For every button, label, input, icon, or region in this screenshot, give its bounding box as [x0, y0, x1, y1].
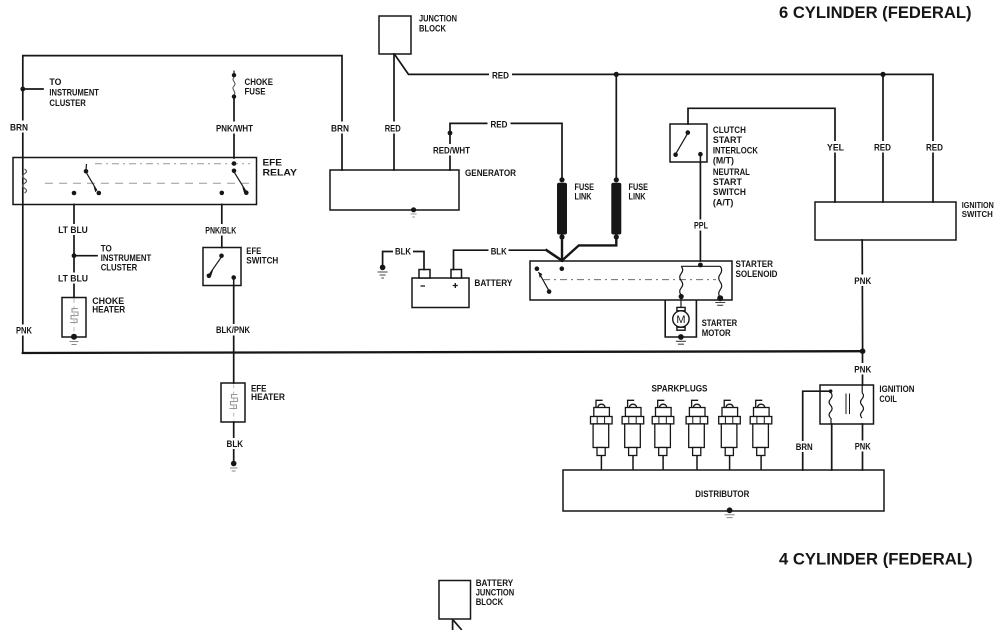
- EFE relay dash line middle: [45, 182, 252, 184]
- svg-text:M: M: [676, 314, 685, 326]
- wire: battery right BLK to solenoid apex: [454, 250, 547, 269]
- battery main box: [412, 278, 469, 308]
- starter solenoid box: [530, 261, 732, 300]
- wire label RED: [488, 119, 511, 130]
- ground: choke heater ground: [70, 342, 79, 345]
- wire label BLK/PNK: [215, 324, 252, 336]
- svg-text:BRN: BRN: [796, 442, 813, 452]
- svg-text:(A/T): (A/T): [713, 197, 734, 207]
- starter solenoid internals: [535, 263, 726, 306]
- svg-text:START: START: [713, 177, 742, 187]
- wire: YEL line clutch interlock to ignition switch: [688, 108, 835, 202]
- svg-text:RED: RED: [492, 71, 509, 81]
- wire label PNK: [853, 275, 873, 287]
- distributor bottom terminal: [725, 507, 735, 517]
- wire: PNK bus to ignition coil: [862, 351, 864, 385]
- node: LT BLU junction dot: [72, 253, 77, 258]
- svg-text:JUNCTION: JUNCTION: [419, 14, 457, 24]
- wire: PNK/BLK relay to EFE switch: [221, 205, 223, 248]
- svg-text:SWITCH: SWITCH: [713, 187, 746, 197]
- wire: RED drop to ignition switch: [882, 74, 884, 202]
- wire label RED: [872, 141, 893, 153]
- svg-text:BRN: BRN: [331, 124, 349, 134]
- EFE switch internals: [207, 254, 236, 286]
- wire label PPL: [692, 220, 710, 231]
- battery junction block pigtails: [453, 619, 462, 630]
- svg-text:IGNITION: IGNITION: [879, 384, 914, 394]
- wire label BRN: [9, 121, 30, 133]
- wire label RED: [383, 122, 403, 134]
- ground: solenoid coil ground: [715, 303, 725, 306]
- svg-text:SWITCH: SWITCH: [246, 256, 278, 266]
- wire label LT BLU: [57, 273, 90, 284]
- EFE switch box: [203, 248, 241, 286]
- wire: BRN coil feed from distributor: [803, 391, 831, 470]
- svg-text:TO: TO: [49, 77, 61, 87]
- RED/WHT node dot: [448, 131, 453, 136]
- wire: PNK ignition switch down to bus: [861, 240, 863, 351]
- EFE relay dash-dot line upper: [95, 163, 250, 165]
- svg-text:PNK: PNK: [854, 365, 871, 375]
- sparkplug 4: [686, 400, 708, 470]
- fuse link 2: [611, 177, 621, 239]
- wire: BLK/PNK EFE switch to EFE heater: [233, 286, 235, 384]
- ignition switch box: [815, 202, 956, 240]
- svg-text:RED: RED: [926, 143, 943, 153]
- choke heater box: [62, 298, 86, 338]
- wire label RED: [924, 141, 945, 153]
- svg-text:YEL: YEL: [827, 143, 844, 153]
- svg-text:SPARKPLUGS: SPARKPLUGS: [652, 384, 708, 394]
- wire label BLK: [225, 438, 246, 449]
- wire label LT BLU: [57, 224, 90, 235]
- svg-text:BLK/PNK: BLK/PNK: [216, 325, 250, 335]
- BLK terminal below EFE heater: [230, 461, 237, 471]
- svg-text:STARTER: STARTER: [736, 259, 774, 269]
- svg-text:PNK/WHT: PNK/WHT: [216, 124, 253, 134]
- svg-text:RELAY: RELAY: [263, 168, 298, 178]
- battery terminal left: [419, 270, 430, 279]
- svg-text:PNK: PNK: [16, 326, 32, 336]
- svg-text:START: START: [713, 135, 742, 145]
- svg-text:BLK: BLK: [491, 247, 507, 257]
- svg-text:LT BLU: LT BLU: [58, 274, 88, 284]
- EFE relay middle switch: [72, 164, 101, 195]
- wire: junction block down to generator RED: [393, 54, 395, 170]
- wire label BLK: [489, 246, 509, 257]
- ignition coil internals: [829, 386, 864, 425]
- wire: RED branch to fuse link 1: [450, 123, 562, 178]
- svg-text:6 CYLINDER (FEDERAL): 6 CYLINDER (FEDERAL): [779, 4, 972, 22]
- svg-text:LINK: LINK: [575, 191, 592, 201]
- generator bottom terminal: [411, 207, 417, 217]
- wire label PNK: [853, 363, 873, 375]
- battery plus minus: [421, 283, 458, 288]
- svg-text:HEATER: HEATER: [92, 304, 125, 314]
- svg-text:FUSE: FUSE: [245, 86, 266, 96]
- wire: battery left BLK to ground: [383, 252, 424, 270]
- wire label BRN: [329, 122, 351, 134]
- svg-text:STARTER: STARTER: [702, 318, 738, 328]
- wire label PNK/WHT: [214, 122, 255, 134]
- svg-text:JUNCTION: JUNCTION: [476, 587, 515, 597]
- svg-text:(M/T): (M/T): [713, 156, 734, 166]
- ignition coil box: [820, 385, 874, 424]
- battery terminal right: [451, 270, 462, 279]
- EFE relay right switch: [220, 161, 249, 195]
- EFE relay box: [13, 158, 257, 205]
- generator box: [330, 170, 459, 210]
- wire: PPL clutch interlock to solenoid: [699, 162, 701, 261]
- wire: long bottom PNK bus: [23, 351, 863, 353]
- svg-text:PPL: PPL: [694, 221, 708, 231]
- svg-text:GENERATOR: GENERATOR: [465, 168, 516, 178]
- wire label BRN: [795, 441, 814, 452]
- sparkplug 3: [652, 400, 674, 470]
- wire label RED: [489, 70, 512, 81]
- clutch start interlock internals: [673, 130, 702, 162]
- wire label PNK/BLK: [204, 224, 239, 236]
- svg-text:CLUSTER: CLUSTER: [101, 263, 138, 273]
- node: instrument cluster junction dot: [20, 87, 25, 92]
- node: RED bus junction dot left: [614, 72, 619, 77]
- svg-text:CLUSTER: CLUSTER: [49, 98, 86, 108]
- junction block box: [379, 16, 411, 54]
- svg-text:RED: RED: [491, 120, 508, 130]
- wire: LT BLU drop from EFE relay: [73, 205, 75, 298]
- svg-text:BLOCK: BLOCK: [419, 23, 446, 33]
- svg-text:LINK: LINK: [629, 191, 646, 201]
- wire: fuse link 2 bent path to apex: [562, 236, 616, 260]
- svg-text:PNK/BLK: PNK/BLK: [205, 226, 236, 236]
- wire label YEL: [825, 141, 846, 153]
- wire label BLK: [393, 246, 413, 257]
- svg-text:MOTOR: MOTOR: [702, 328, 731, 338]
- INTERNALS: [20, 71, 885, 518]
- wire: tick to instrument cluster mid: [74, 255, 97, 257]
- wire: fuse link 1 to apex: [561, 236, 563, 261]
- EFE heater box: [221, 383, 245, 422]
- svg-text:BATTERY: BATTERY: [476, 578, 514, 588]
- svg-text:BATTERY: BATTERY: [474, 278, 512, 288]
- clutch start interlock box: [670, 124, 707, 162]
- SPARKPLUGS: [591, 400, 772, 470]
- svg-text:LT BLU: LT BLU: [58, 225, 88, 235]
- svg-text:DISTRIBUTOR: DISTRIBUTOR: [695, 489, 749, 499]
- sparkplug 6: [750, 400, 772, 470]
- ground: starter motor ground: [676, 341, 686, 344]
- choke fuse: [232, 71, 236, 99]
- sparkplug 2: [622, 400, 644, 470]
- sparkplug 1: [591, 400, 613, 470]
- battery ground: [378, 265, 388, 278]
- fuse link 1: [557, 177, 567, 239]
- svg-text:INSTRUMENT: INSTRUMENT: [101, 253, 152, 263]
- wire label PNK: [853, 441, 872, 452]
- svg-text:INSTRUMENT: INSTRUMENT: [49, 88, 99, 98]
- svg-text:PNK: PNK: [855, 442, 871, 452]
- wire: choke fuse drop PNK/WHT: [233, 97, 235, 158]
- starter motor: [665, 298, 696, 344]
- svg-text:SOLENOID: SOLENOID: [736, 269, 778, 279]
- wire: PNK ignition coil to distributor: [862, 424, 864, 470]
- svg-text:BLOCK: BLOCK: [476, 597, 504, 607]
- distributor box: [563, 470, 884, 511]
- wire: tick to instrument cluster: [23, 88, 43, 90]
- svg-text:CLUTCH: CLUTCH: [713, 125, 746, 135]
- svg-text:NEUTRAL: NEUTRAL: [713, 167, 750, 177]
- battery junction block box: [439, 581, 471, 620]
- wire label RED/WHT: [431, 144, 472, 156]
- svg-text:PNK: PNK: [854, 276, 871, 286]
- wire: EFE heater to BLK terminal: [233, 422, 235, 461]
- svg-text:EFE: EFE: [263, 157, 283, 167]
- EFE relay coil: [23, 169, 27, 193]
- PNK bus junction dot: [860, 348, 866, 354]
- svg-text:RED/WHT: RED/WHT: [433, 146, 470, 156]
- svg-text:BRN: BRN: [10, 123, 28, 133]
- svg-text:HEATER: HEATER: [251, 392, 285, 402]
- sparkplug 5: [719, 400, 741, 470]
- svg-text:TO: TO: [101, 244, 112, 254]
- choke heater internals: [70, 299, 79, 345]
- wire label PNK: [14, 325, 34, 336]
- wire: RED bus drop to fuse link 2: [615, 74, 617, 178]
- wire: junction block diagonal to RED bus: [395, 55, 933, 202]
- wire: top-left horizontal BRN feed: [23, 56, 342, 353]
- svg-text:RED: RED: [874, 143, 891, 153]
- svg-text:4 CYLINDER (FEDERAL): 4 CYLINDER (FEDERAL): [779, 550, 973, 568]
- wire: ignition coil left secondary to distributor: [831, 424, 833, 470]
- node: RED bus junction dot right: [880, 72, 885, 77]
- svg-text:RED: RED: [385, 124, 401, 134]
- svg-text:SWITCH: SWITCH: [962, 209, 993, 219]
- svg-text:EFE: EFE: [246, 246, 261, 256]
- EFE heater internals: [230, 385, 238, 421]
- svg-text:BLK: BLK: [227, 439, 244, 449]
- svg-text:INTERLOCK: INTERLOCK: [713, 145, 758, 155]
- svg-text:BLK: BLK: [395, 247, 411, 257]
- svg-text:COIL: COIL: [879, 394, 897, 404]
